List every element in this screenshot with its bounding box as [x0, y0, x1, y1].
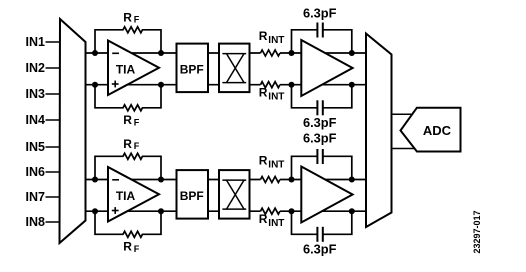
svg-text:R: R [259, 29, 268, 43]
svg-text:TIA: TIA [116, 63, 136, 77]
svg-text:R: R [123, 113, 132, 127]
svg-text:R: R [123, 137, 132, 151]
svg-text:BPF: BPF [180, 63, 204, 77]
svg-text:6.3pF: 6.3pF [303, 115, 337, 130]
svg-text:IN1: IN1 [26, 35, 46, 49]
svg-text:R: R [123, 11, 132, 25]
svg-text:6.3pF: 6.3pF [303, 131, 337, 146]
svg-text:IN5: IN5 [26, 140, 46, 154]
svg-text:R: R [259, 212, 268, 226]
svg-text:INT: INT [268, 35, 284, 46]
svg-text:R: R [259, 154, 268, 168]
svg-text:R: R [259, 85, 268, 99]
svg-text:INT: INT [268, 218, 284, 229]
svg-text:ADC: ADC [423, 123, 452, 138]
svg-text:IN7: IN7 [26, 190, 46, 204]
svg-text:6.3pF: 6.3pF [303, 242, 337, 257]
svg-text:IN2: IN2 [26, 61, 46, 75]
svg-text:23297-017: 23297-017 [472, 210, 482, 253]
svg-text:IN3: IN3 [26, 87, 46, 101]
svg-text:INT: INT [268, 91, 284, 102]
svg-text:F: F [134, 15, 140, 25]
svg-text:R: R [123, 240, 132, 254]
svg-text:INT: INT [268, 160, 284, 171]
svg-text:F: F [134, 118, 140, 128]
svg-text:BPF: BPF [180, 189, 204, 203]
svg-text:TIA: TIA [116, 189, 136, 203]
svg-text:IN8: IN8 [26, 215, 46, 229]
svg-text:IN6: IN6 [26, 165, 46, 179]
svg-text:F: F [134, 141, 140, 151]
svg-text:6.3pF: 6.3pF [303, 5, 337, 20]
svg-text:F: F [134, 244, 140, 254]
svg-text:IN4: IN4 [26, 113, 46, 127]
